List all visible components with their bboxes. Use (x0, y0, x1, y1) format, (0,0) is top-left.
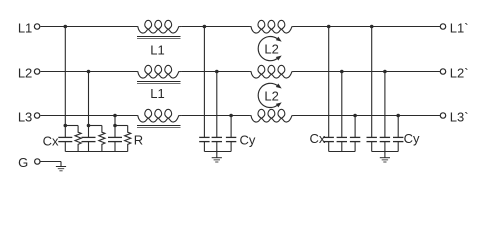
resistor R 3 (125, 126, 131, 152)
wire vertical L1 to right Cy cap 1 (371, 27, 373, 138)
wire vertical L1 to Cy1 cap 1 (203, 27, 205, 138)
ground (G) (56, 162, 66, 171)
resistor R 1 (75, 126, 81, 152)
wire vertical from L3 to Cx node 3 (114, 116, 116, 126)
wire row L1 segment 3 (294, 26, 440, 28)
capacitor Cx right 3 (350, 137, 360, 151)
terminal L1 (34, 24, 39, 29)
junction dot row L3 / right Cx bank (353, 114, 357, 118)
node Cx branch 3 (junction) (113, 124, 117, 128)
label L3&#96; (450, 109, 469, 124)
capacitor Cx 1 (58, 126, 72, 152)
node Cx branch 1 (junction) (64, 124, 68, 128)
junction dot row L2 / Cy bank 1 (215, 70, 219, 74)
inductor L2 winding (line L1) (250, 20, 295, 33)
capacitor Cy right 2 (380, 137, 390, 151)
svg-text:L1: L1 (150, 42, 164, 57)
wire right Cy bus (372, 151, 399, 153)
svg-text:G: G (18, 155, 28, 170)
label L3 (18, 109, 32, 124)
wire row L2 segment 1 (40, 71, 136, 73)
symbol L2 coupling arrow (upper) (258, 36, 281, 60)
label L1&#96; (450, 20, 469, 35)
inductor L1 winding (line L1) (136, 20, 181, 38)
label L2 (18, 65, 32, 80)
label Cx (right) (310, 131, 326, 146)
capacitor Cy right 3 (393, 137, 403, 151)
label R (134, 133, 143, 148)
wire row L1 segment 2 (181, 26, 249, 28)
capacitor Cy1 3 (226, 137, 236, 151)
wire row L3 segment 1 (40, 115, 136, 117)
svg-text:L1`: L1` (450, 20, 469, 35)
capacitor Cy right 1 (367, 137, 377, 151)
svg-text:L2`: L2` (450, 65, 469, 80)
value label L1 (middle winding) (150, 86, 164, 101)
svg-text:L2: L2 (18, 65, 32, 80)
label L1 (18, 20, 32, 35)
wire vertical from L2 to Cx node 2 (88, 72, 90, 126)
svg-text:L1: L1 (150, 86, 164, 101)
capacitor Cy1 1 (199, 137, 209, 151)
svg-text:L1: L1 (18, 20, 32, 35)
terminal L3 (34, 113, 39, 118)
label Cy (left) (240, 132, 256, 147)
capacitor Cx 3 (108, 126, 122, 152)
terminal G (35, 159, 40, 164)
wire row L3 segment 2 (181, 115, 249, 117)
wire vertical L1 to right Cx cap 1 (328, 27, 330, 138)
label L2&#96; (450, 65, 469, 80)
wire node to resistor R3 (115, 125, 128, 127)
svg-text:R: R (134, 133, 143, 148)
label Cx (left) (43, 134, 59, 149)
inductor L1 winding (line L2) (136, 65, 181, 83)
junction dot row L2 / right Cx bank (340, 70, 344, 74)
wire row L3 segment 3 (294, 115, 440, 117)
label G (18, 155, 28, 170)
wire vertical L3 to Cy1 cap 3 (230, 116, 232, 138)
node Cx branch 2 (junction) (87, 124, 91, 128)
ground (Cy2) (380, 153, 390, 162)
wire vertical L3 to right Cx cap 3 (354, 116, 356, 138)
wire right Cy ground stem (384, 152, 386, 154)
capacitor Cx right 1 (324, 137, 334, 151)
junction dot row L2 / right Cy bank (383, 70, 387, 74)
junction dot on L1 row for Cx bank (64, 25, 68, 29)
capacitor Cx right 2 (337, 137, 347, 151)
capacitor Cy1 2 (212, 137, 222, 151)
wire row L2 segment 3 (294, 71, 440, 73)
wire Cy1 ground stem (216, 152, 218, 154)
wire node to resistor R2 (89, 125, 102, 127)
wire node to resistor R1 (65, 125, 78, 127)
symbol L2 coupling arrow (lower) (258, 83, 281, 107)
wire G lead (40, 161, 61, 164)
junction dot row L3 / Cy bank 1 (229, 114, 233, 118)
junction dot row L3 / right Cy bank (396, 114, 400, 118)
wire row L1 segment 1 (40, 26, 136, 28)
resistor R 2 (99, 126, 105, 152)
wire vertical L2 to Cy1 cap 2 (216, 72, 218, 138)
svg-text:L2: L2 (264, 88, 278, 103)
terminal L3&#96; (440, 113, 445, 118)
svg-text:L2: L2 (264, 42, 278, 57)
terminal L2 (34, 69, 39, 74)
terminal L2&#96; (440, 69, 445, 74)
wire right Cx bus (329, 151, 355, 153)
value label L1 (top winding) (150, 42, 164, 57)
inductor L1 winding (line L3) (136, 109, 181, 127)
junction dot row L1 / right Cy bank (370, 25, 374, 29)
capacitor Cx 2 (82, 126, 96, 152)
junction dot on L3 row for Cx bank (113, 114, 117, 118)
svg-text:Cy: Cy (404, 131, 420, 146)
wire vertical L2 to right Cy cap 2 (384, 72, 386, 138)
junction dot row L1 / right Cx bank (327, 25, 331, 29)
junction dot on L2 row for Cx bank (87, 70, 91, 74)
wire vertical L2 to right Cx cap 2 (341, 72, 343, 138)
svg-text:L3: L3 (18, 109, 32, 124)
ground (Cy1) (212, 153, 222, 162)
svg-text:Cx: Cx (310, 131, 326, 146)
wire row L2 segment 2 (181, 71, 249, 73)
label Cy (right) (404, 131, 420, 146)
wire vertical L3 to right Cy cap 3 (397, 116, 399, 138)
inductor L2 winding (line L3) (250, 109, 295, 122)
svg-text:Cx: Cx (43, 134, 59, 149)
wire Cy1 bus (204, 151, 231, 153)
inductor L2 winding (line L2) (250, 65, 295, 78)
wire Cx/R common bus (65, 151, 127, 153)
wire vertical from L1 to Cx node 1 (64, 27, 66, 126)
junction dot row L1 / Cy bank 1 (203, 25, 207, 29)
terminal L1&#96; (440, 24, 445, 29)
svg-text:Cy: Cy (240, 132, 256, 147)
svg-text:L3`: L3` (450, 109, 469, 124)
